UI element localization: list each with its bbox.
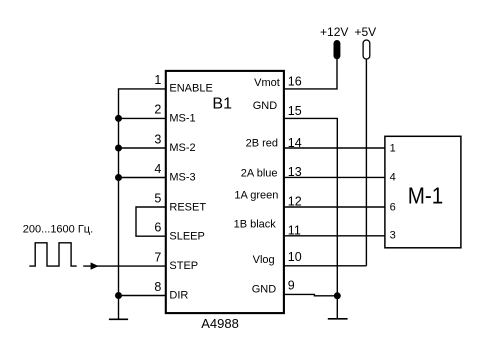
- wire pin 4 MS-3 to bus: [119, 177, 166, 179]
- wire pin 11 1B black to motor pin 3: [284, 235, 385, 237]
- svg-text:STEP: STEP: [169, 260, 198, 272]
- svg-text:2A blue: 2A blue: [241, 167, 278, 179]
- wire pin 8 DIR to bus: [119, 295, 166, 297]
- svg-text:2: 2: [154, 103, 161, 117]
- arrow on STEP wire: [91, 262, 99, 269]
- junction dot pin 9 GND: [334, 292, 341, 299]
- svg-text:6: 6: [154, 221, 161, 235]
- wire pin 2 MS-1 to bus: [119, 117, 166, 119]
- junction dot pin 3: [115, 145, 122, 152]
- wire pin 16 Vmot to +12V: [284, 59, 337, 89]
- svg-text:4: 4: [390, 172, 396, 184]
- svg-text:15: 15: [288, 104, 302, 118]
- svg-text:4: 4: [154, 162, 161, 176]
- svg-text:3: 3: [390, 230, 396, 242]
- svg-text:6: 6: [390, 202, 396, 214]
- wire pin 3 MS-2 to bus: [119, 147, 166, 149]
- +12V terminal: [334, 40, 341, 59]
- wire pin 14 2B red to motor pin 1: [284, 147, 385, 149]
- svg-text:12: 12: [288, 194, 302, 208]
- wire STEP input: [83, 265, 166, 267]
- svg-text:A4988: A4988: [201, 316, 239, 331]
- svg-text:10: 10: [288, 250, 302, 264]
- wire pin 12 1A green to motor pin 6: [284, 206, 385, 208]
- wire pin 13 2A blue to motor pin 4: [284, 176, 385, 178]
- svg-text:GND: GND: [253, 100, 278, 112]
- svg-text:200...1600 Гц.: 200...1600 Гц.: [23, 223, 93, 235]
- junction dot pin 8: [115, 292, 122, 299]
- svg-text:RESET: RESET: [169, 201, 206, 213]
- wire pin 1 ENABLE to left ground bus: [119, 89, 166, 319]
- svg-text:ENABLE: ENABLE: [169, 83, 212, 95]
- svg-text:Vlog: Vlog: [253, 254, 275, 266]
- svg-text:B1: B1: [212, 96, 232, 113]
- junction dot pin 4: [115, 174, 122, 181]
- svg-text:1: 1: [154, 73, 161, 87]
- ground left: [109, 318, 128, 320]
- svg-text:7: 7: [154, 250, 161, 264]
- wire pin 15 GND down to right ground: [284, 118, 337, 318]
- junction dot pin 2: [115, 115, 122, 122]
- svg-text:1: 1: [390, 143, 396, 155]
- svg-text:8: 8: [154, 280, 161, 294]
- svg-text:1A green: 1A green: [234, 189, 278, 201]
- svg-text:9: 9: [288, 279, 295, 293]
- ground right: [328, 318, 348, 320]
- svg-text:M-1: M-1: [408, 183, 444, 209]
- motor M-1 body: [385, 136, 461, 248]
- svg-text:1B black: 1B black: [234, 219, 277, 231]
- svg-text:5: 5: [154, 191, 161, 205]
- svg-text:SLEEP: SLEEP: [169, 230, 204, 242]
- svg-text:GND: GND: [252, 283, 277, 295]
- square wave signal source: [29, 243, 76, 266]
- svg-text:MS-3: MS-3: [169, 172, 195, 184]
- IC U1 body (driver B1 / A4988): [166, 71, 284, 313]
- svg-text:MS-1: MS-1: [169, 112, 195, 124]
- wire pin 10 Vlog: [284, 265, 367, 267]
- svg-text:16: 16: [288, 75, 302, 89]
- svg-text:DIR: DIR: [169, 290, 188, 302]
- svg-text:3: 3: [154, 132, 161, 146]
- svg-text:+5V: +5V: [354, 25, 376, 39]
- svg-text:+12V: +12V: [320, 25, 348, 39]
- wire pin 9 GND to right ground: [284, 294, 337, 295]
- wire loop RESET to SLEEP: [136, 207, 166, 236]
- +5V terminal: [363, 40, 370, 59]
- svg-text:Vmot: Vmot: [254, 77, 280, 89]
- svg-text:2B red: 2B red: [246, 138, 278, 150]
- svg-text:MS-2: MS-2: [169, 142, 195, 154]
- wire +5V to Vlog: [365, 59, 367, 266]
